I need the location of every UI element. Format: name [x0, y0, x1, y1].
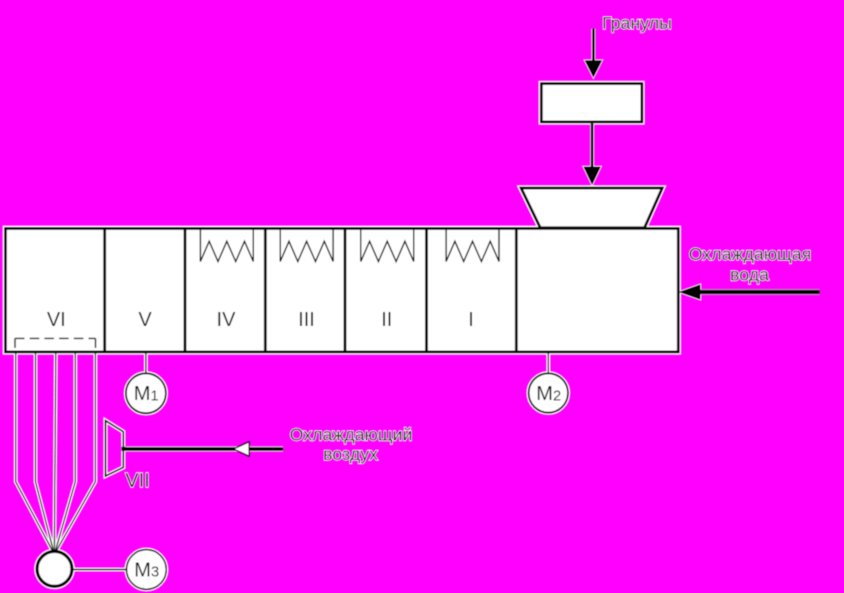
svg-text:II: II: [381, 309, 392, 331]
svg-text:воздух: воздух: [323, 444, 378, 464]
svg-text:VI: VI: [47, 309, 66, 331]
svg-text:VII: VII: [125, 470, 149, 492]
svg-text:Охлаждающая: Охлаждающая: [689, 244, 811, 264]
svg-text:I: I: [468, 309, 474, 331]
svg-text:Охлаждающий: Охлаждающий: [290, 425, 413, 445]
svg-text:V: V: [138, 309, 152, 331]
svg-text:вода: вода: [730, 264, 769, 284]
svg-text:Гранулы: Гранулы: [602, 13, 672, 33]
svg-text:III: III: [298, 309, 315, 331]
svg-text:IV: IV: [217, 309, 237, 331]
